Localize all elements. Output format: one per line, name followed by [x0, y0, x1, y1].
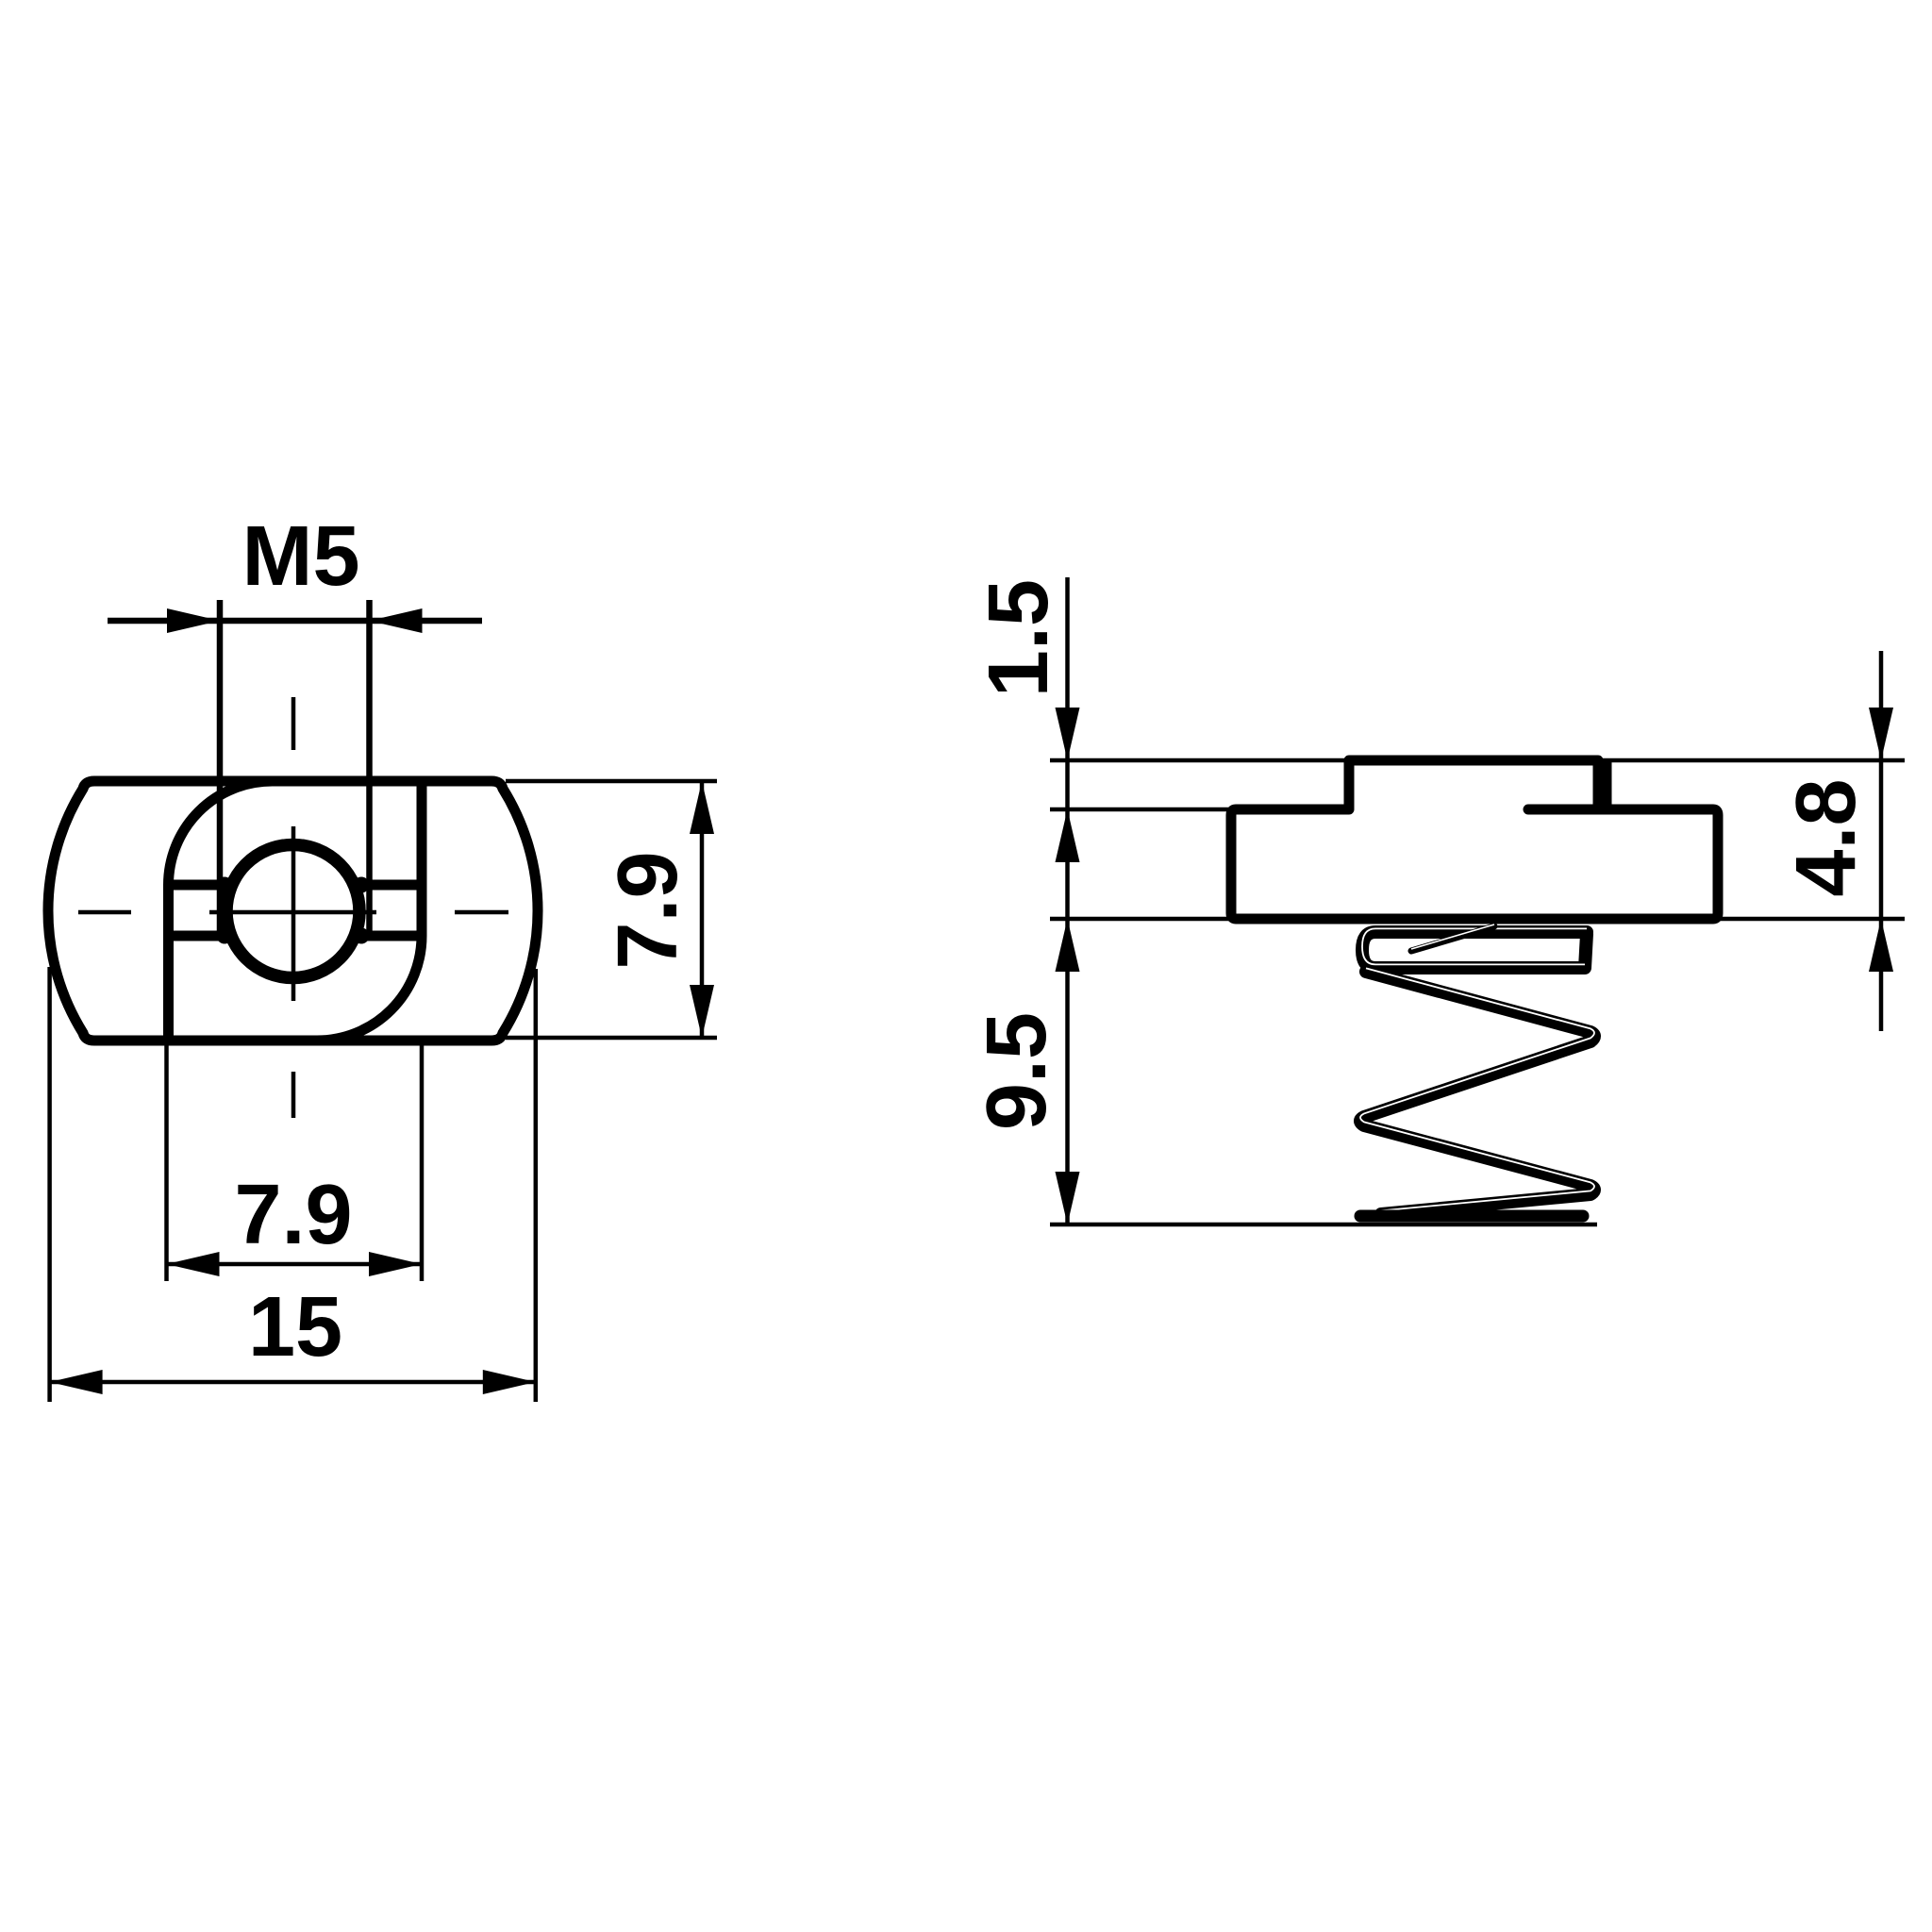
- svg-text:M5: M5: [241, 509, 359, 604]
- spring bottom dead coil: [1360, 1210, 1583, 1223]
- raised boss contour (comma shape): [169, 781, 423, 1041]
- 7.9 height extension line top: [506, 779, 717, 784]
- M5 threaded hole: [226, 845, 359, 978]
- main plate side outline: [1231, 809, 1718, 919]
- 9.5 arrow up at C: [1056, 919, 1080, 972]
- 4.8 arrow down at A: [1869, 708, 1893, 760]
- svg-text:4.8: 4.8: [1779, 778, 1874, 896]
- svg-text:9.5: 9.5: [970, 1012, 1064, 1130]
- M5 dimension line: [108, 618, 482, 625]
- M5 extension line right: [366, 600, 373, 937]
- 7.9 height arrow up: [690, 781, 714, 834]
- svg-text:1.5: 1.5: [972, 579, 1066, 697]
- 7.9 width arrow left: [167, 1252, 220, 1276]
- 7.9 height extension line bottom: [506, 1036, 717, 1041]
- svg-text:7.9: 7.9: [601, 851, 695, 969]
- 7.9 height dimension line: [700, 781, 705, 1038]
- horizontal centerline: [78, 910, 508, 915]
- spring slot upper line left: [169, 880, 229, 891]
- spring coil white midline: [1360, 928, 1594, 1210]
- 15 dimension line: [50, 1380, 536, 1385]
- svg-text:7.9: 7.9: [234, 1168, 352, 1262]
- M5 arrow left: [167, 608, 220, 633]
- spring top coil end cut: [1411, 926, 1494, 951]
- reference line C (bottom of plate): [1050, 917, 1905, 922]
- 15 arrow right: [483, 1370, 536, 1394]
- 1.5 arrow up at B: [1056, 809, 1080, 862]
- M5 extension line left: [217, 600, 224, 937]
- reference line bottom (spring end): [1050, 1223, 1597, 1227]
- vertical centerline: [291, 697, 296, 1118]
- spring slot lower line left: [169, 931, 229, 941]
- spring coil: [1360, 932, 1594, 1214]
- 4.8 arrow up at C: [1869, 919, 1893, 972]
- spring slot lower line right: [358, 931, 422, 941]
- reference line A (top of boss): [1050, 758, 1905, 763]
- spring slot upper line right: [358, 880, 422, 891]
- reference line B (top of plate): [1050, 808, 1349, 812]
- 7.9 width dimension line: [167, 1262, 423, 1267]
- 1.5 arrow down at A: [1056, 708, 1080, 760]
- left dimension column line: [1065, 577, 1070, 1224]
- 7.9 width extension line left: [164, 1045, 169, 1281]
- 15 arrow left: [50, 1370, 103, 1394]
- 7.9 height arrow down: [690, 985, 714, 1038]
- 9.5 arrow down at bottom: [1056, 1172, 1080, 1224]
- 7.9 width extension line right: [420, 1045, 425, 1281]
- boss right hidden edge: [1602, 760, 1612, 809]
- T-nut body outline (top view): [48, 781, 538, 1041]
- boss side outline: [1349, 760, 1598, 809]
- 15 extension line right: [534, 969, 539, 1402]
- right dimension column line: [1879, 651, 1884, 1031]
- 15 extension line left: [47, 967, 52, 1402]
- M5 arrow right: [370, 608, 423, 633]
- 7.9 width arrow right: [369, 1252, 422, 1276]
- junction nubs at slot/hole intersections: [217, 877, 233, 893]
- svg-text:15: 15: [248, 1280, 342, 1374]
